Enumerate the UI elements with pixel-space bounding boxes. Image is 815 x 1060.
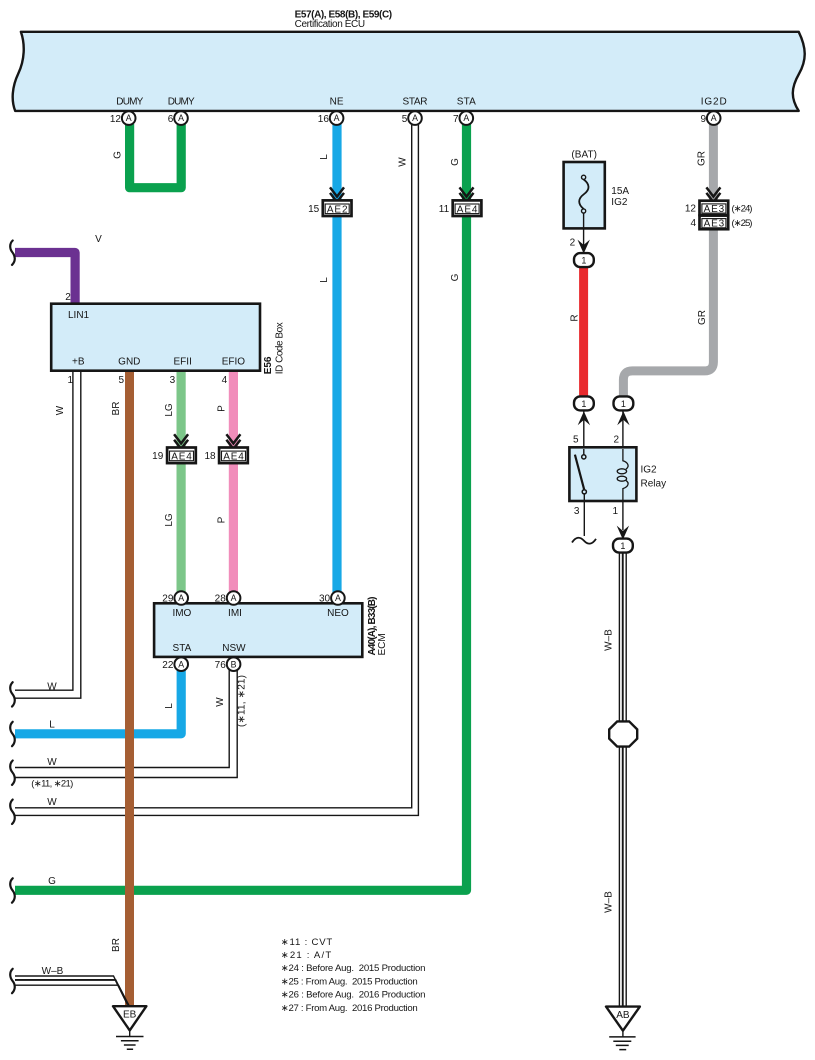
svg-text:(∗24): (∗24) <box>732 204 753 215</box>
svg-text:LIN1: LIN1 <box>68 310 90 321</box>
junction circle 1 below relay <box>613 539 633 553</box>
svg-text:W: W <box>47 757 57 768</box>
wire thin from relay pin 1 to junction <box>622 501 624 530</box>
svg-text:BR: BR <box>111 402 122 416</box>
chevron arrows into AE4 18 (P wire) <box>226 434 240 449</box>
rotated wire color labels upper <box>112 151 708 325</box>
svg-text:L: L <box>319 154 330 160</box>
svg-text:5: 5 <box>402 114 408 125</box>
junction circle 1 below fuse <box>574 253 594 267</box>
wire P from E56 EFIO to ECM IMI <box>229 371 238 593</box>
svg-text:E56: E56 <box>263 356 274 374</box>
svg-text:3: 3 <box>170 375 176 386</box>
svg-text:R: R <box>570 314 581 321</box>
svg-text:∗24 : Before Aug. 2015 Produc: ∗24 : Before Aug. 2015 Production <box>281 963 426 974</box>
svg-text:NEO: NEO <box>327 608 349 619</box>
svg-text:A: A <box>463 113 469 123</box>
svg-text:A: A <box>178 593 184 603</box>
svg-text:(∗11, ∗21): (∗11, ∗21) <box>31 779 73 790</box>
break squiggle below relay pin 3 <box>572 538 596 544</box>
fuse 15A IG2 (BAT) <box>564 150 630 249</box>
svg-text:∗26 : Before Aug. 2016 Produc: ∗26 : Before Aug. 2016 Production <box>281 990 426 1001</box>
svg-text:Certification ECU: Certification ECU <box>295 19 366 30</box>
ECU pin circles row <box>122 111 721 125</box>
svg-text:W: W <box>55 405 66 415</box>
svg-text:19: 19 <box>152 451 164 462</box>
svg-text:A: A <box>412 113 418 123</box>
squiggle W <box>10 682 15 706</box>
svg-text:1: 1 <box>621 399 626 409</box>
svg-text:∗27 : From Aug. 2016 Producti: ∗27 : From Aug. 2016 Production <box>281 1003 418 1014</box>
svg-text:IMI: IMI <box>228 608 242 619</box>
ECU box E57(A), E58(B), E59(C) Certification ECU <box>13 32 805 111</box>
svg-text:A: A <box>178 659 184 669</box>
chevron arrows into AE4 19 (LG wire) <box>174 434 188 449</box>
wire L blue from ECM STA pin 22 down and left to connector <box>15 670 181 734</box>
svg-text:NSW: NSW <box>222 643 246 654</box>
squiggle W-B <box>10 969 15 993</box>
svg-text:IG2: IG2 <box>641 465 658 476</box>
svg-text:W–B: W–B <box>42 966 64 977</box>
ground EB triangle <box>113 1006 146 1030</box>
svg-text:4: 4 <box>690 218 696 229</box>
wire W-B striped line from left connector to ground EB <box>15 976 126 1002</box>
svg-text:W: W <box>215 697 226 707</box>
svg-text:Relay: Relay <box>641 478 667 489</box>
svg-text:EFII: EFII <box>174 356 192 367</box>
svg-text:(BAT): (BAT) <box>571 150 597 161</box>
octagon splice on W-B wire <box>609 721 637 746</box>
svg-text:6: 6 <box>168 114 174 125</box>
wire W double line from ECU STAR down and left to connector <box>15 125 412 808</box>
svg-text:G: G <box>450 158 461 166</box>
svg-text:5: 5 <box>573 435 579 446</box>
svg-text:GR: GR <box>697 310 708 325</box>
relay coil <box>623 449 628 469</box>
svg-text:V: V <box>95 234 102 245</box>
svg-text:W: W <box>47 681 57 692</box>
svg-text:G: G <box>48 876 56 887</box>
svg-text:G: G <box>450 273 461 281</box>
svg-text:IG2D: IG2D <box>701 97 727 108</box>
svg-text:W: W <box>47 797 57 808</box>
svg-text:P: P <box>217 405 228 412</box>
svg-text:9: 9 <box>700 114 706 125</box>
svg-text:2: 2 <box>570 237 576 248</box>
wire BR brown from E56 GND to ground EB <box>125 371 134 1006</box>
svg-text:B: B <box>231 659 237 669</box>
svg-text:22: 22 <box>162 660 174 671</box>
connector box AE3 pin 12 (*24) <box>685 201 753 215</box>
squiggle G <box>10 878 15 902</box>
squiggle W STAR <box>10 800 15 824</box>
arrow down into junction below relay pin 1 <box>617 526 629 540</box>
svg-text:12: 12 <box>110 114 122 125</box>
svg-text:1: 1 <box>620 541 625 551</box>
svg-text:4: 4 <box>222 375 228 386</box>
wire L blue from ECU NE to ECM NEO <box>332 124 341 593</box>
connector box AE4 pin 18 <box>204 448 247 464</box>
wire GR gray from ECU IG2D down to relay junction <box>623 124 713 398</box>
svg-text:AE2: AE2 <box>327 204 348 215</box>
svg-text:A: A <box>231 593 237 603</box>
arrow down into junction below fuse <box>578 240 590 254</box>
ECU pin numbers <box>110 114 707 125</box>
notes list <box>281 937 426 1014</box>
ground AB triangle <box>606 1007 640 1031</box>
wire R red from fuse junction 1 to junction 1 <box>579 264 588 399</box>
svg-text:AE3: AE3 <box>704 204 725 215</box>
chevron arrows into AE4 (STA wire) <box>460 187 474 202</box>
svg-text:AB: AB <box>616 1010 630 1021</box>
wire thin from junction to relay pin 2 <box>622 409 624 461</box>
svg-text:AE4: AE4 <box>171 451 192 462</box>
svg-text:AE4: AE4 <box>223 451 244 462</box>
ECM top pin circles <box>174 591 344 671</box>
chevron arrows into AE3 (IG2D wire) <box>706 187 720 202</box>
svg-text:12: 12 <box>685 204 697 215</box>
svg-text:L: L <box>164 703 175 709</box>
svg-text:W–B: W–B <box>604 891 615 913</box>
relay IG2 box <box>569 435 666 517</box>
rotated labels below E56 <box>55 402 228 527</box>
svg-text:STA: STA <box>457 97 476 108</box>
ECU pin circle letters <box>126 113 717 123</box>
svg-text:GND: GND <box>118 356 140 367</box>
svg-text:L: L <box>49 719 55 730</box>
svg-text:(∗11, ∗21): (∗11, ∗21) <box>237 675 248 727</box>
svg-text:15A: 15A <box>611 186 629 197</box>
svg-text:LG: LG <box>164 403 175 417</box>
rotated labels below ECM <box>164 675 248 727</box>
svg-text:L: L <box>319 277 330 283</box>
svg-text:28: 28 <box>215 594 227 605</box>
svg-text:(∗25): (∗25) <box>732 218 753 229</box>
wire W double line from E56 pin 1 (+B) down and left to connector <box>15 371 73 690</box>
svg-text:ECM: ECM <box>377 633 388 655</box>
svg-text:A: A <box>711 113 717 123</box>
svg-text:16: 16 <box>318 114 330 125</box>
left edge connector squiggles <box>10 241 15 994</box>
svg-text:3: 3 <box>574 506 580 517</box>
svg-text:NE: NE <box>330 97 344 108</box>
svg-text:+B: +B <box>72 356 85 367</box>
wire W-B striped line from junction through octagon to ground AB <box>618 552 620 1006</box>
squiggle V <box>10 241 15 265</box>
left horizontal wire labels <box>42 681 64 977</box>
svg-text:1: 1 <box>581 399 586 409</box>
svg-text:ID Code Box: ID Code Box <box>275 322 286 374</box>
wire W double line from ECM NSW pin 76 down and left to connector <box>15 670 229 768</box>
wire G green from ECU STA down, across to left connector <box>15 124 467 890</box>
svg-text:11: 11 <box>439 204 450 215</box>
svg-text:5: 5 <box>119 375 125 386</box>
E56 ID Code Box <box>51 292 285 386</box>
squiggle W (*11,*21) <box>10 761 15 785</box>
svg-text:DUMY: DUMY <box>116 97 143 108</box>
svg-text:1: 1 <box>613 506 619 517</box>
connector box AE4 pin 11 <box>439 200 482 216</box>
svg-text:G: G <box>112 151 123 159</box>
junction circle 1 above relay pin 5 <box>574 396 594 410</box>
junction circle 1 above relay pin 2 <box>614 396 634 410</box>
svg-text:2: 2 <box>65 292 71 303</box>
svg-text:A: A <box>335 593 341 603</box>
svg-text:A: A <box>126 113 132 123</box>
arrow up to junction (pin 2 side) <box>617 411 629 425</box>
svg-text:AE4: AE4 <box>457 204 478 215</box>
connector box AE3 pin 4 (*25) <box>690 216 752 230</box>
svg-text:DUMY: DUMY <box>168 97 195 108</box>
svg-text:18: 18 <box>204 451 216 462</box>
svg-text:76: 76 <box>215 660 227 671</box>
wire thin from relay pin 3 to break symbol <box>583 493 585 536</box>
svg-text:W–B: W–B <box>604 629 615 651</box>
svg-text:STA: STA <box>173 643 192 654</box>
connector box AE2 pin 15 <box>308 200 351 216</box>
svg-text:STAR: STAR <box>403 97 428 108</box>
svg-text:∗11 : CVT: ∗11 : CVT <box>281 937 333 948</box>
ECM box A40(A), B33(B) <box>154 597 388 657</box>
svg-text:7: 7 <box>453 114 459 125</box>
relay switch contact <box>583 449 585 455</box>
wire thin from fuse to junction <box>583 213 585 254</box>
wire thin from junction to relay pin 5 <box>583 409 585 455</box>
connector box AE4 pin 19 <box>152 448 196 464</box>
squiggle L <box>10 722 15 746</box>
wire G green DUMY jumper <box>130 124 182 188</box>
svg-text:1: 1 <box>581 256 586 266</box>
svg-text:IG2: IG2 <box>611 197 628 208</box>
wire V purple from left connector to E56 pin 2 <box>15 253 75 306</box>
svg-text:∗21 : A/T: ∗21 : A/T <box>281 950 332 961</box>
svg-text:∗25 : From Aug. 2015 Producti: ∗25 : From Aug. 2015 Production <box>281 977 418 988</box>
svg-text:BR: BR <box>111 938 122 952</box>
svg-text:2: 2 <box>614 435 620 446</box>
svg-text:1: 1 <box>68 375 74 386</box>
svg-text:LG: LG <box>164 513 175 527</box>
svg-text:GR: GR <box>696 151 707 166</box>
svg-text:30: 30 <box>319 594 331 605</box>
svg-text:IMO: IMO <box>172 608 191 619</box>
svg-text:A: A <box>178 113 184 123</box>
svg-text:EB: EB <box>123 1010 137 1021</box>
svg-text:29: 29 <box>162 594 174 605</box>
svg-text:15: 15 <box>308 204 320 215</box>
chevron arrows into AE2 (NE wire) <box>174 187 720 449</box>
svg-text:A: A <box>334 113 340 123</box>
wire LG from E56 EFII to ECM IMO <box>177 371 186 593</box>
svg-text:AE3: AE3 <box>704 219 725 230</box>
svg-text:P: P <box>217 516 228 523</box>
svg-text:EFIO: EFIO <box>222 356 246 367</box>
ECM pin numbers <box>162 594 330 671</box>
svg-text:W: W <box>398 157 409 167</box>
arrow up to junction (pin 5 side) <box>578 411 590 425</box>
